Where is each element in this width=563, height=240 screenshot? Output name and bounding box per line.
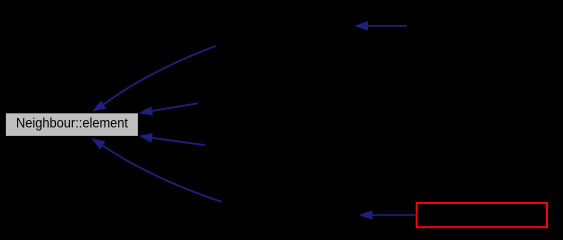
svg-text:Neighbour::element: Neighbour::element — [16, 115, 128, 130]
edge: top horizontal arrow — [354, 21, 407, 31]
edge: top curved arrow to node top — [92, 46, 215, 111]
red node box — [417, 203, 547, 227]
edge: bottom horizontal arrow from red box — [359, 210, 417, 220]
node Neighbour::element — [5, 113, 138, 137]
edge: upper straight arrow to node right side — [139, 103, 198, 115]
edge: lower straight arrow to node right side — [139, 133, 206, 145]
edge: bottom curved arrow to node bottom — [92, 138, 223, 202]
